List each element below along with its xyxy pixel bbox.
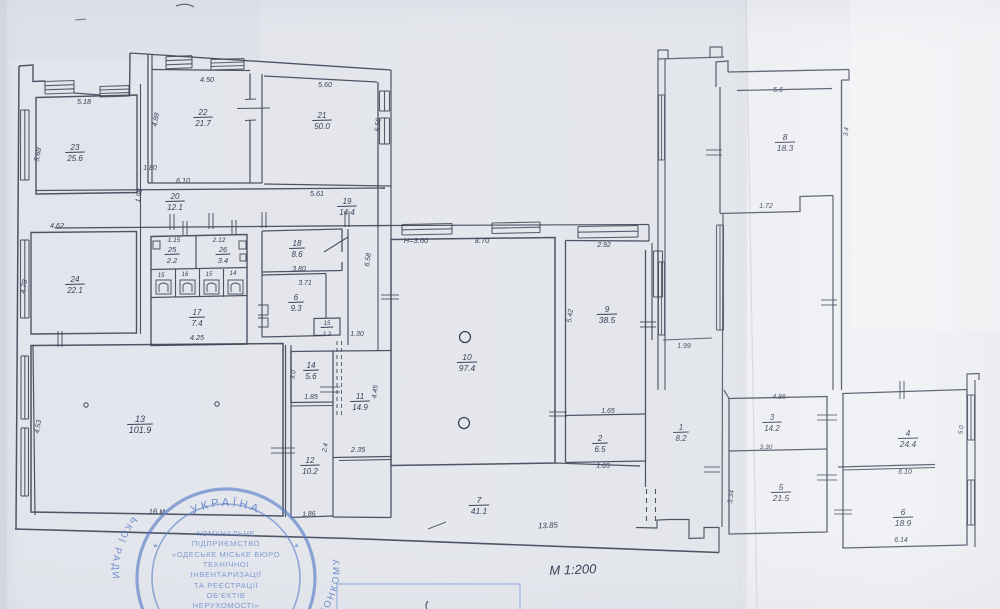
- fixture: WC pan 3: [204, 280, 219, 294]
- door ticks corridor12: [271, 447, 295, 449]
- window: room24 W wall: [20, 240, 22, 318]
- svg-text:23: 23: [70, 143, 80, 152]
- label: room 8 18.3: [775, 132, 795, 153]
- wall: hall10/room9 N outer: [391, 225, 649, 226]
- svg-text:18: 18: [293, 239, 302, 248]
- wall: room13 W inner: [33, 345, 35, 515]
- window: above room22 b: [211, 59, 244, 60]
- label: room 26 3.4: [216, 245, 231, 265]
- svg-text:7.4: 7.4: [191, 319, 203, 328]
- stairs flight dashed b: [655, 489, 657, 524]
- svg-text:50.0: 50.0: [314, 122, 330, 131]
- svg-text:2.2: 2.2: [166, 256, 178, 265]
- svg-text:1.80: 1.80: [143, 165, 157, 172]
- svg-text:12: 12: [306, 456, 315, 465]
- wall: room8 N outer: [728, 70, 849, 73]
- label: room 4 24.4: [898, 428, 918, 449]
- wall: room6 S: [262, 336, 326, 338]
- window: right bldg W b: [658, 262, 660, 335]
- svg-text:ОБ’ЄКТІВ: ОБ’ЄКТІВ: [206, 591, 245, 600]
- fixture: sink room26 b: [240, 254, 246, 261]
- label: room 5 21.5: [771, 482, 791, 503]
- svg-text:16: 16: [182, 272, 189, 278]
- label: room 2 6.5: [592, 434, 608, 454]
- wall: room21 S: [264, 184, 391, 186]
- vent circle a: [84, 403, 88, 407]
- label: hall 10 97.4: [457, 352, 477, 373]
- door jamb divider a: [245, 98, 256, 101]
- wall: corridor1 W: [722, 214, 723, 528]
- svg-text:8.6: 8.6: [291, 250, 303, 259]
- wall dashed: room11 W b: [341, 341, 343, 417]
- door leaf divider: [237, 107, 270, 110]
- svg-text:2.35: 2.35: [350, 445, 366, 454]
- wall: NE parapet: [967, 374, 979, 390]
- wall: room21 E inner: [377, 82, 379, 226]
- window: room9 E: [653, 251, 655, 297]
- svg-text:2: 2: [597, 434, 603, 443]
- door ticks hall10 E: [549, 411, 567, 413]
- label: room 9 38.5: [597, 304, 617, 325]
- wall: corridor20 N: [36, 188, 385, 191]
- wall: E twin of rooms23/24: [140, 84, 142, 334]
- entrance steps: [636, 520, 719, 553]
- vent circle b: [215, 402, 219, 406]
- label: room 24 22.1: [65, 275, 84, 295]
- door ticks corridor20 c: [261, 212, 263, 228]
- door ticks room8 W: [706, 149, 722, 151]
- svg-text:25: 25: [167, 245, 177, 254]
- svg-text:9.3: 9.3: [290, 304, 302, 313]
- label: room 22 21.7: [193, 108, 212, 128]
- wall: room3/5 divider: [729, 449, 827, 451]
- svg-text:6: 6: [901, 507, 906, 517]
- svg-text:ТА РЕЄСТРАЦІЇ: ТА РЕЄСТРАЦІЇ: [194, 581, 259, 590]
- svg-text:1.2: 1.2: [323, 332, 332, 338]
- svg-text:4: 4: [906, 428, 911, 438]
- label: room 6b 18.9: [893, 507, 913, 528]
- label: room 17 7.4: [189, 308, 205, 328]
- svg-text:3.4: 3.4: [218, 256, 228, 265]
- chimney stub a: [658, 50, 668, 59]
- svg-text:26: 26: [218, 245, 228, 254]
- window: room23 W wall: [20, 110, 22, 180]
- wall: room11 N: [333, 350, 391, 353]
- door jamb divider b: [245, 119, 256, 122]
- wall: stall divider 3: [223, 269, 225, 297]
- wall: room6 N: [262, 274, 326, 276]
- wall: room9 E outer: [651, 243, 653, 340]
- svg-text:14.9: 14.9: [352, 403, 368, 412]
- svg-text:15: 15: [206, 272, 213, 278]
- wall: room9 W (double E of hall): [565, 241, 567, 463]
- wall: step 1.99: [663, 338, 712, 340]
- svg-text:41.1: 41.1: [471, 506, 488, 516]
- column hall10 b: [459, 418, 470, 429]
- svg-text:2.12: 2.12: [212, 237, 226, 244]
- door swing room18: [324, 237, 348, 252]
- wall: corridor12 W inner: [290, 345, 292, 517]
- wall: room22 S: [148, 182, 262, 184]
- wall: room4/6 divider S: [843, 468, 935, 471]
- svg-text:3.4: 3.4: [842, 127, 850, 137]
- svg-text:9: 9: [605, 304, 610, 314]
- wall: corridor12 N: [291, 405, 333, 408]
- fixture: WC bowl 4: [231, 283, 240, 292]
- window: E wall b: [967, 480, 969, 525]
- door ticks room3 E: [817, 414, 837, 416]
- squiggle top edge: [176, 4, 194, 7]
- svg-text:6.10: 6.10: [898, 469, 912, 476]
- room 15 walls: [314, 318, 340, 336]
- door ticks corridor20 d: [344, 211, 346, 227]
- wall: room8 S step: [720, 196, 833, 214]
- wall: riser to mid block: [129, 53, 132, 97]
- svg-text:4.25: 4.25: [190, 333, 205, 342]
- wall: corridor12 S: [291, 516, 333, 518]
- svg-text:24.4: 24.4: [899, 439, 917, 449]
- svg-text:ТЕХНІЧНОЇ: ТЕХНІЧНОЇ: [203, 560, 250, 569]
- door ticks corridor20 b: [208, 213, 210, 229]
- svg-text:4.62: 4.62: [50, 221, 64, 230]
- svg-text:21.5: 21.5: [772, 493, 790, 503]
- handwriting mark bottom: [426, 601, 428, 609]
- svg-text:3.30: 3.30: [760, 444, 773, 451]
- svg-text:6.5: 6.5: [594, 445, 606, 454]
- stub above toilets a: [182, 221, 184, 235]
- rooms 3/5 outer walls: [729, 397, 827, 535]
- window: top-left 2: [100, 86, 129, 87]
- wall: top outer sloped rooms22/21: [130, 53, 391, 70]
- svg-text:ІНВЕНТАРИЗАЦІЇ: ІНВЕНТАРИЗАЦІЇ: [190, 570, 261, 579]
- label: corridor 7 41.1: [469, 495, 489, 516]
- wall: room2 E lower: [645, 462, 647, 487]
- label: room 3 14.2: [762, 413, 781, 433]
- svg-text:20: 20: [170, 192, 180, 201]
- niches E of toilets: [258, 305, 268, 327]
- svg-text:5.60: 5.60: [318, 80, 332, 89]
- wall: E outer face: [974, 380, 976, 547]
- label: room 21 50.0: [312, 111, 331, 131]
- wall: 25/26 divider: [195, 236, 197, 269]
- wall: divider22/21 W lower: [249, 120, 251, 183]
- fixture: sink room25: [153, 241, 160, 249]
- label: room 13 101.9: [127, 414, 153, 435]
- fixture: WC bowl 1: [159, 283, 168, 292]
- svg-text:19: 19: [343, 197, 352, 206]
- svg-text:7: 7: [477, 495, 482, 505]
- svg-text:КОМУНАЛЬНЕ: КОМУНАЛЬНЕ: [197, 529, 256, 538]
- svg-text:8.70: 8.70: [475, 236, 490, 245]
- svg-text:12.1: 12.1: [167, 203, 183, 212]
- wall: room8 W: [719, 87, 721, 213]
- svg-text:Н=3.60: Н=3.60: [404, 236, 429, 245]
- room 14 walls: [291, 351, 333, 403]
- diagonal tick near corridor7: [428, 522, 446, 529]
- svg-text:1.65: 1.65: [601, 408, 615, 415]
- svg-text:6.10: 6.10: [176, 176, 190, 185]
- fixture: WC pan 4: [228, 280, 243, 294]
- wall: room9 S / room2 N: [566, 414, 646, 416]
- svg-text:101.9: 101.9: [129, 425, 152, 435]
- wall: hall SW to corridor: [390, 466, 392, 518]
- fixture: WC bowl 2: [183, 283, 192, 292]
- svg-text:6: 6: [294, 293, 299, 302]
- hall 10 walls: [391, 238, 555, 466]
- label: room 12 10.2: [300, 456, 319, 476]
- svg-text:17: 17: [193, 308, 202, 317]
- svg-text:5.18: 5.18: [77, 97, 91, 106]
- faint blue box bottom centre: [337, 584, 520, 609]
- fixture: WC pan 2: [180, 280, 195, 294]
- wall: room22 N inner: [152, 70, 250, 71]
- svg-text:5.61: 5.61: [310, 189, 324, 198]
- window: top-left 1: [45, 81, 74, 82]
- door ticks room24/13: [57, 331, 59, 347]
- wall: room11 S: [333, 457, 391, 458]
- stairs flight dashed a: [646, 489, 648, 524]
- wall: link shaft to room3: [724, 390, 729, 399]
- svg-text:1.99: 1.99: [677, 343, 691, 350]
- label: room 6 9.3: [288, 293, 304, 313]
- window: shaft W: [716, 225, 718, 330]
- rooms 4/6 outer walls: [843, 390, 967, 549]
- fold crease: [737, 0, 747, 609]
- top-left darker patch: [0, 0, 260, 60]
- svg-text:14: 14: [307, 361, 316, 370]
- wall: room8 E: [841, 80, 843, 390]
- svg-text:22: 22: [198, 108, 208, 117]
- svg-text:97.4: 97.4: [459, 363, 476, 373]
- svg-text:3.80: 3.80: [292, 266, 306, 273]
- svg-text:13.85: 13.85: [538, 521, 559, 531]
- svg-text:1.30: 1.30: [350, 331, 364, 338]
- window: room21 E a: [379, 91, 381, 111]
- window: room9 N: [578, 226, 638, 227]
- label: room 14 5.6: [303, 361, 319, 381]
- svg-text:10.2: 10.2: [302, 467, 318, 476]
- column hall10 a: [460, 332, 471, 343]
- wall: room9 E inner: [645, 250, 647, 462]
- door ticks room14/11: [320, 386, 340, 388]
- svg-text:22.1: 22.1: [66, 286, 83, 295]
- room 23 walls: [36, 95, 137, 194]
- svg-text:8.2: 8.2: [675, 434, 687, 443]
- wall: room8 NW step: [716, 61, 728, 87]
- svg-text:21.7: 21.7: [194, 119, 211, 128]
- wall: between TL windows: [74, 93, 100, 95]
- wall: room9 N inner: [566, 240, 650, 243]
- svg-text:8: 8: [783, 132, 788, 142]
- svg-text:25.6: 25.6: [66, 154, 83, 163]
- svg-text:5.0: 5.0: [957, 425, 965, 435]
- svg-text:3.71: 3.71: [298, 280, 312, 287]
- svg-text:1.15: 1.15: [168, 237, 181, 244]
- svg-text:3: 3: [770, 413, 775, 422]
- wall: divider22/21 W upper: [249, 74, 251, 100]
- svg-text:10: 10: [462, 352, 472, 362]
- svg-text:14.2: 14.2: [764, 424, 780, 433]
- wall: court W lower: [377, 226, 379, 351]
- wall: corridor7 N left part: [333, 516, 391, 519]
- window: E wall a: [967, 395, 969, 440]
- svg-text:5.56: 5.56: [374, 118, 382, 132]
- window: room13 W wall b: [20, 428, 22, 496]
- svg-text:НЕРУХОМОСТІ»: НЕРУХОМОСТІ»: [193, 601, 260, 609]
- label: room 11 14.9: [350, 392, 369, 412]
- wall: corridor7 N right part: [555, 463, 640, 466]
- wall: corridor12 E: [332, 457, 334, 517]
- wall: corridor20 S: [55, 226, 391, 229]
- wall: room6 E: [325, 274, 327, 319]
- wall: room11 S twin: [339, 460, 391, 461]
- door ticks corridor1 W: [704, 466, 720, 468]
- svg-text:5.6: 5.6: [773, 87, 783, 94]
- door ticks hall10 W: [381, 294, 399, 296]
- label: room 15 1.2: [321, 321, 334, 338]
- wall: room6 W: [261, 272, 263, 337]
- svg-text:11: 11: [356, 392, 364, 401]
- wall: court W upper: [390, 70, 392, 239]
- svg-text:4.50: 4.50: [200, 75, 214, 84]
- wall: right bldg W outer: [657, 59, 659, 390]
- window: room13 W wall a: [20, 356, 22, 419]
- wall: room2 S: [566, 461, 646, 463]
- stamp centre text: [172, 529, 280, 609]
- stamp: round seal: [137, 489, 315, 609]
- svg-text:13: 13: [135, 414, 145, 424]
- door ticks corridor20 a: [169, 214, 171, 230]
- door ticks room5 E: [817, 474, 837, 476]
- wall: stall divider 1: [175, 269, 177, 297]
- wall: room4/6 divider N: [838, 465, 935, 468]
- svg-text:1: 1: [679, 423, 683, 432]
- svg-text:ПІДПРИЄМСТВО: ПІДПРИЄМСТВО: [192, 539, 260, 548]
- wall: room8 N inner: [737, 89, 832, 91]
- wall: corridor12 W outer: [285, 345, 287, 517]
- label: room 18 8.6: [289, 239, 305, 259]
- wall: stalls N: [151, 268, 247, 270]
- fixture: WC pan 1: [156, 280, 171, 294]
- svg-text:1.86: 1.86: [302, 511, 316, 519]
- wall: stair shaft E: [832, 196, 834, 391]
- wall: divider22/21 E: [261, 74, 263, 183]
- svg-text:24: 24: [70, 275, 80, 284]
- top-right lighter patch: [850, 0, 1000, 330]
- svg-text:38.5: 38.5: [599, 315, 616, 325]
- small mark top-left: [75, 19, 86, 20]
- svg-text:М 1:200: М 1:200: [549, 561, 597, 578]
- wall: E of rooms 18/6: [347, 229, 349, 345]
- window: room21 E b: [379, 118, 381, 144]
- wall: right bldg N-W link: [658, 57, 724, 59]
- label: room 20 12.1: [165, 192, 184, 212]
- svg-text:15: 15: [324, 321, 331, 327]
- wall: room21 N inner: [264, 76, 377, 82]
- window: right bldg W a: [658, 95, 660, 160]
- svg-text:14: 14: [230, 271, 237, 277]
- wall: room8 NE step: [842, 70, 850, 81]
- toilet block outer walls: [151, 235, 247, 346]
- wall: courtyard NE corner: [648, 225, 650, 241]
- wall: stalls S: [151, 296, 247, 298]
- wall: room22 W outer: [147, 54, 149, 183]
- window: hall10 N b: [492, 222, 540, 223]
- window: above room22 a: [166, 56, 192, 57]
- wall: stall divider 2: [199, 269, 201, 297]
- wall: room22 W inner: [151, 55, 153, 184]
- svg-text:14.4: 14.4: [339, 208, 355, 217]
- room 24 walls: [31, 232, 137, 335]
- wall: left outer: [16, 66, 19, 529]
- svg-text:«ОДЕСЬКЕ МІСЬКЕ БЮРО: «ОДЕСЬКЕ МІСЬКЕ БЮРО: [172, 550, 280, 559]
- fixture: WC bowl 3: [207, 283, 216, 292]
- svg-text:6.14: 6.14: [894, 537, 908, 544]
- svg-text:1.85: 1.85: [304, 394, 318, 401]
- wall: room11 W lower: [332, 402, 334, 457]
- wall: right bldg W inner: [664, 59, 666, 390]
- door ticks room6 W: [834, 509, 852, 511]
- wall: top-left step: [19, 65, 45, 82]
- label: room 19 14.4: [337, 197, 356, 217]
- svg-text:1.72: 1.72: [759, 203, 773, 210]
- chimney stub b: [710, 47, 722, 57]
- svg-text:4.86: 4.86: [772, 394, 786, 401]
- svg-text:21: 21: [317, 111, 327, 120]
- svg-text:5.6: 5.6: [305, 372, 317, 381]
- svg-text:5: 5: [779, 482, 784, 492]
- room 18 walls: [262, 229, 342, 272]
- door ticks shaft E: [821, 299, 837, 301]
- wall: bottom outer: [15, 529, 719, 553]
- svg-text:18.9: 18.9: [895, 518, 912, 528]
- label: room 23 25.6: [65, 143, 84, 163]
- stub above toilets b: [231, 220, 233, 234]
- label: corridor 1 8.2: [673, 423, 689, 443]
- door ticks room9 E: [640, 321, 656, 323]
- room 13 walls: [31, 344, 283, 517]
- svg-text:18.3: 18.3: [777, 143, 794, 153]
- window: hall10 N a: [402, 224, 452, 225]
- fixture: sink room26 a: [239, 241, 246, 249]
- wall dashed: room11 W a: [336, 341, 338, 417]
- svg-text:2.92: 2.92: [596, 242, 611, 249]
- label: room 25 2.2: [165, 245, 180, 265]
- svg-text:15: 15: [158, 273, 165, 279]
- door ticks room4 N: [899, 381, 901, 399]
